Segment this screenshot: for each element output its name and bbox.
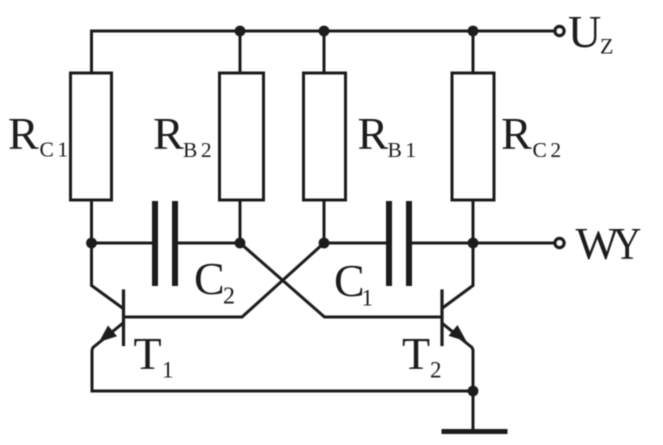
svg-text:Y: Y	[613, 219, 641, 270]
svg-text:R: R	[358, 108, 389, 159]
svg-text:T: T	[134, 328, 162, 379]
svg-text:C: C	[334, 255, 365, 306]
svg-text:C: C	[194, 253, 225, 304]
svg-text:1: 1	[362, 286, 374, 311]
svg-text:B2: B2	[183, 138, 215, 162]
svg-text:R: R	[501, 108, 532, 159]
svg-text:2: 2	[430, 358, 442, 383]
svg-text:U: U	[568, 6, 601, 57]
svg-text:2: 2	[223, 284, 235, 310]
svg-text:R: R	[153, 108, 184, 159]
svg-text:Z: Z	[600, 34, 613, 59]
svg-text:C1: C1	[40, 138, 72, 162]
svg-text:R: R	[8, 108, 39, 159]
svg-text:C2: C2	[533, 138, 565, 162]
svg-text:T: T	[402, 328, 430, 379]
svg-text:B1: B1	[388, 138, 420, 162]
svg-text:1: 1	[162, 358, 174, 383]
